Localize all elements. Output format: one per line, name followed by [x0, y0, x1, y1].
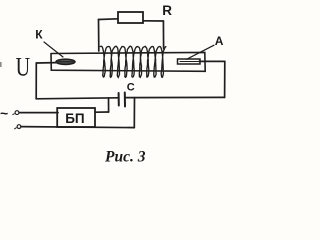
- discharge tube body: [51, 52, 205, 71]
- terminal circle top: [15, 111, 19, 115]
- svg-text:БП: БП: [65, 111, 84, 126]
- svg-text:C: C: [127, 82, 135, 94]
- wire: resistor right lead: [143, 20, 163, 22]
- resistor R body: [118, 12, 143, 23]
- terminal circle bottom: [17, 125, 21, 129]
- capacitor C left plate: [118, 93, 120, 106]
- anode electrode A: [178, 59, 201, 64]
- wire: coil left lead up to top loop: [98, 20, 100, 52]
- wire: right lead down to coil: [162, 21, 164, 49]
- pointer line from K label to cathode: [44, 42, 63, 57]
- pointer line from A label to anode: [187, 45, 215, 59]
- wire: anode lead into tube: [199, 60, 225, 62]
- wire: right vertical up to anode lead: [224, 61, 226, 97]
- wire: from top terminal to power supply: [20, 112, 59, 114]
- wire: capacitor right lead going right to anode drop: [125, 96, 225, 98]
- svg-text:~: ~: [0, 105, 8, 121]
- terminal tail bottom: [15, 128, 17, 129]
- capacitor C right plate: [124, 93, 126, 107]
- wire: bottom long wire from bottom terminal to riser: [21, 127, 134, 128]
- wire: horizontal to capacitor left plate: [36, 98, 118, 99]
- cathode electrode K: [56, 59, 75, 64]
- svg-text:Рис. 3: Рис. 3: [105, 148, 146, 165]
- wire: tap from capacitor-left wire down to power supply: [108, 98, 110, 112]
- edge mark (scan artifact): [0, 62, 2, 67]
- wire: top wire from left lead to resistor R: [99, 18, 118, 21]
- wire: cathode lead through tube wall to the left: [36, 62, 56, 64]
- svg-text:К: К: [35, 28, 43, 42]
- wire: riser up to capacitor right node: [133, 98, 135, 128]
- coil L wound around tube: [100, 46, 166, 77]
- terminal tail top: [13, 113, 14, 116]
- svg-text:А: А: [215, 34, 224, 48]
- paper background: [0, 0, 258, 180]
- svg-text:U: U: [16, 53, 31, 82]
- wire: power supply right top lead: [96, 111, 109, 113]
- power supply box BP: [57, 108, 95, 127]
- wire: left drop down: [35, 63, 37, 99]
- svg-text:R: R: [162, 3, 172, 18]
